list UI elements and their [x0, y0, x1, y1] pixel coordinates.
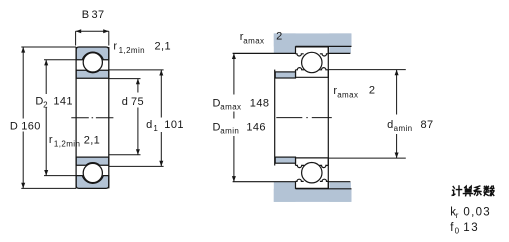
arrow damin down [395, 153, 399, 159]
housing bore line top [296, 45, 352, 47]
housing shoulder bottom-left (blue) [274, 182, 296, 202]
svg-text:1,2min: 1,2min [119, 46, 145, 55]
svg-text:r: r [113, 41, 117, 53]
dim d ext bottom [109, 154, 141, 156]
arrow D2 down [44, 170, 48, 176]
arrow D2 up [44, 60, 48, 66]
svg-text:160: 160 [21, 120, 41, 132]
svg-text:amax: amax [337, 90, 358, 99]
dim damin ext bottom [328, 157, 406, 159]
svg-text:amax: amax [243, 36, 264, 45]
svg-text:D: D [10, 120, 18, 132]
svg-text:D: D [213, 122, 221, 134]
svg-text:B: B [82, 9, 89, 21]
inner ring lower right view [296, 158, 329, 166]
inner ring upper (blue) [76, 70, 109, 78]
arrowheads left view [21, 29, 163, 188]
dim D ext top [21, 46, 76, 48]
svg-text:141: 141 [53, 96, 73, 108]
svg-text:2: 2 [369, 85, 376, 97]
dim d ext top [109, 78, 141, 80]
svg-text:r: r [49, 134, 53, 146]
housing bore line bottom [296, 188, 352, 190]
svg-text:d: d [387, 119, 393, 131]
shaft end / right face line [327, 46, 329, 188]
svg-text:148: 148 [250, 98, 270, 110]
svg-text:amax: amax [220, 102, 241, 111]
axis centerline right view [276, 117, 332, 119]
housing band bottom (blue) [274, 189, 352, 202]
arrowheads right view [232, 53, 399, 181]
inner ring upper right view [296, 70, 329, 78]
dim damin ext top [328, 69, 406, 71]
arrow D down [21, 183, 25, 189]
dim Da line [233, 53, 235, 181]
arrow d1 up [159, 70, 163, 76]
ball upper right view [302, 52, 322, 72]
dim D ext bottom [21, 187, 76, 189]
shaft shoulder face line [274, 70, 276, 166]
housing band top (blue) [274, 33, 352, 46]
char shu [484, 186, 494, 196]
dim D2 ext bottom [44, 175, 76, 177]
outer ring lower (blue) [76, 176, 109, 189]
svg-text:87: 87 [421, 119, 434, 131]
svg-text:0,03: 0,03 [463, 207, 491, 219]
dim d line [137, 79, 139, 155]
arrow Da down [232, 176, 236, 182]
dim d1 ext top [109, 69, 164, 71]
svg-text:d: d [122, 96, 128, 108]
svg-text:D: D [213, 98, 221, 110]
dimension lines left view [21, 31, 163, 188]
dim d1 ext bottom [109, 165, 164, 167]
left face line [75, 47, 77, 188]
housing shoulder line top-right [328, 52, 350, 54]
arrow B right [103, 29, 109, 33]
shaft shoulder strip upper (blue) [275, 72, 295, 78]
housing shoulder line bottom [233, 181, 296, 183]
housing shoulder top-left (blue) [274, 33, 296, 53]
shaft shoulder strip lower (blue) [275, 157, 295, 163]
dim d1 line [160, 70, 162, 166]
housing shoulder bottom-right (blue) [329, 182, 351, 202]
svg-text:r: r [456, 211, 459, 220]
svg-text:2,1: 2,1 [155, 41, 172, 53]
inner ring lower (blue) [76, 157, 109, 165]
right face line [108, 47, 110, 188]
dim B line [76, 30, 109, 32]
svg-text:146: 146 [246, 122, 266, 134]
ball upper [83, 53, 102, 72]
housing shoulder top-right (blue) [329, 33, 351, 53]
svg-text:0: 0 [455, 227, 460, 236]
housing shoulder line top [233, 52, 296, 54]
dim D line [22, 47, 24, 188]
arrow d down [136, 149, 140, 155]
svg-text:37: 37 [92, 9, 105, 21]
svg-text:1: 1 [153, 124, 158, 133]
dim D2 line [45, 60, 47, 176]
dim B ext right [108, 31, 110, 45]
ball lower right view [302, 163, 322, 183]
arrow B left [76, 29, 82, 33]
svg-text:2: 2 [276, 30, 283, 42]
arrow Da up [232, 53, 236, 59]
arrow d up [136, 79, 140, 85]
svg-text:101: 101 [164, 119, 184, 131]
housing shoulder line bottom-right [328, 181, 350, 183]
dim B ext left [75, 31, 77, 45]
svg-text:2: 2 [43, 100, 48, 109]
char xi [474, 186, 481, 195]
svg-text:75: 75 [131, 96, 144, 108]
svg-text:d: d [146, 119, 152, 131]
svg-text:amin: amin [394, 124, 413, 133]
svg-text:2,1: 2,1 [84, 135, 101, 147]
axis centerline left view [71, 117, 113, 119]
arrow d1 down [159, 161, 163, 167]
chinese title 计算系数 (drawn strokes) [452, 186, 494, 196]
char ji [452, 186, 461, 196]
svg-text:1,2min: 1,2min [54, 139, 80, 148]
arrow D up [21, 47, 25, 53]
dim D2 ext top [44, 59, 76, 61]
outer ring upper (blue) [76, 47, 109, 60]
dimension lines right view [234, 53, 406, 181]
dim damin line [396, 70, 398, 159]
outer ring upper white [296, 47, 329, 54]
bearing upper (right view) [275, 46, 329, 188]
outer ring lower right view [296, 181, 329, 188]
arrow damin up [395, 70, 399, 76]
char suan [463, 186, 472, 196]
svg-text:amin: amin [220, 126, 239, 135]
ball lower [83, 163, 102, 182]
svg-text:13: 13 [463, 222, 479, 234]
